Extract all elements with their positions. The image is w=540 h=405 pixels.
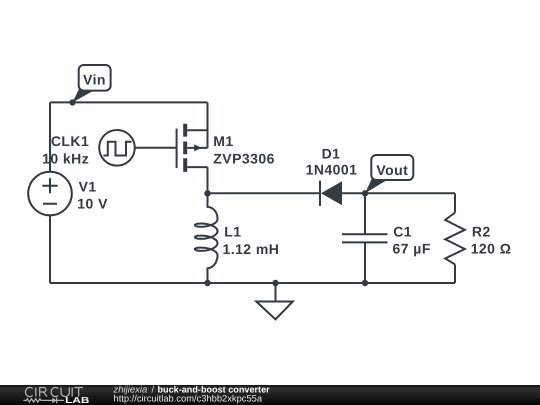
label L1 value — [223, 223, 280, 257]
wire: V1 bottom lead — [49, 215, 51, 283]
voltage source V1 — [28, 172, 72, 216]
label CLK1 value — [42, 133, 89, 167]
svg-text:D1: D1 — [322, 145, 341, 161]
capacitor C1 — [342, 234, 388, 242]
junction: C1 bottom — [362, 280, 368, 286]
diode D1 — [320, 181, 342, 206]
wire: M1 drain lead to switch node — [207, 167, 209, 193]
svg-text:R2: R2 — [472, 224, 491, 240]
svg-text:ZVP3306: ZVP3306 — [213, 151, 275, 167]
svg-text:1N4001: 1N4001 — [306, 161, 358, 177]
transistor M1 (PMOS) — [177, 124, 208, 172]
label R2 value — [471, 224, 512, 257]
resistor R2 — [445, 213, 465, 265]
wire: CLK1 output to M1 gate — [135, 147, 177, 149]
junction node Vout — [362, 190, 368, 196]
svg-text:Vout: Vout — [376, 162, 408, 178]
junction: ground node — [272, 280, 278, 286]
wire: R2 top lead — [454, 193, 456, 212]
svg-text:C1: C1 — [393, 223, 412, 239]
wire: V1 top lead — [49, 102, 51, 171]
wire: ground stub — [275, 283, 277, 302]
svg-text:V1: V1 — [79, 178, 97, 194]
footer title text — [113, 384, 271, 403]
junction: switch node — [204, 190, 210, 196]
junction: L1 bottom — [204, 280, 210, 286]
svg-text:M1: M1 — [213, 133, 233, 149]
wire: top rail Vin — [50, 101, 208, 103]
label V1 value — [77, 178, 108, 211]
svg-text:L1: L1 — [224, 223, 241, 239]
wire: C1 top lead — [364, 193, 366, 234]
svg-text:10 kHz: 10 kHz — [42, 151, 89, 167]
label C1 value — [393, 223, 431, 256]
label D1 value — [306, 145, 358, 177]
junction node Vin — [69, 99, 75, 105]
inductor L1 — [195, 193, 218, 283]
wire: R2 bottom lead — [454, 264, 456, 283]
footer watermark bar — [0, 385, 540, 405]
svg-text:10 V: 10 V — [77, 196, 108, 212]
svg-text:120 Ω: 120 Ω — [471, 240, 512, 256]
svg-text:Vin: Vin — [83, 72, 106, 88]
logo CircuitLab — [23, 387, 89, 405]
svg-text:67 µF: 67 µF — [393, 240, 431, 256]
wire: M1 source lead from top rail — [207, 102, 209, 147]
svg-text:LAB: LAB — [65, 395, 89, 405]
wire: C1 bottom lead — [364, 242, 366, 283]
ground — [256, 302, 293, 320]
svg-text:CLK1: CLK1 — [51, 133, 89, 149]
node label Vin — [73, 65, 111, 102]
svg-text:1.12 mH: 1.12 mH — [223, 241, 280, 257]
wire: bottom ground rail — [50, 282, 455, 284]
node label Vout — [365, 155, 413, 193]
wire: switch node to D1 cathode — [208, 192, 321, 194]
wire: D1 anode to Vout node to R2 — [342, 192, 455, 194]
label M1 value — [213, 133, 275, 167]
svg-text:http://circuitlab.com/c3hbb2xk: http://circuitlab.com/c3hbb2xkpc55a — [114, 394, 263, 404]
clock source CLK1 — [99, 130, 135, 166]
